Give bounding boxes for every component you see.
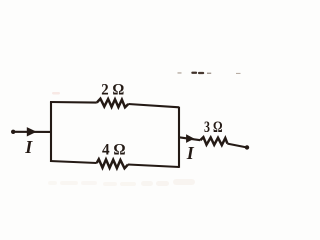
svg-text:2 Ω: 2 Ω xyxy=(101,81,124,98)
stray print mark: faint dash right xyxy=(207,73,211,74)
node: left input terminal dot xyxy=(11,130,15,134)
node: right output terminal dot xyxy=(245,145,249,149)
ghost text smudge (show-through, bottom) xyxy=(48,179,195,186)
wire: right output lead from loop xyxy=(179,137,200,140)
resistor R2 4Ω (zigzag) xyxy=(97,159,128,168)
wire: right output lead to terminal xyxy=(227,144,246,148)
wire: left input lead xyxy=(15,131,52,133)
current direction arrow (right, I) xyxy=(186,134,194,143)
wire: right edge of parallel loop xyxy=(178,107,180,168)
stray print mark: faint dots far right xyxy=(236,73,241,74)
wire: bottom branch right segment xyxy=(128,165,179,168)
wire: left edge of parallel loop xyxy=(50,102,52,162)
stray print mark: dark dash 2 xyxy=(198,72,204,74)
stray print mark: dark dash 1 xyxy=(191,72,197,74)
wire: bottom branch left segment xyxy=(50,161,97,163)
svg-text:3 Ω: 3 Ω xyxy=(204,119,223,136)
svg-text:4 Ω: 4 Ω xyxy=(102,142,126,159)
ghost mark smudge (top-left of loop) xyxy=(52,92,60,95)
svg-text:I: I xyxy=(24,137,33,157)
wire: top branch left segment xyxy=(50,101,97,104)
stray print mark: faint dot left of dashes xyxy=(178,72,182,73)
wire: top branch right segment xyxy=(128,104,179,107)
svg-text:I: I xyxy=(186,143,195,163)
resistor R3 3Ω (zigzag) xyxy=(200,137,227,145)
current direction arrow (left, I) xyxy=(27,127,37,136)
resistor R1 2Ω (zigzag) xyxy=(97,99,129,108)
